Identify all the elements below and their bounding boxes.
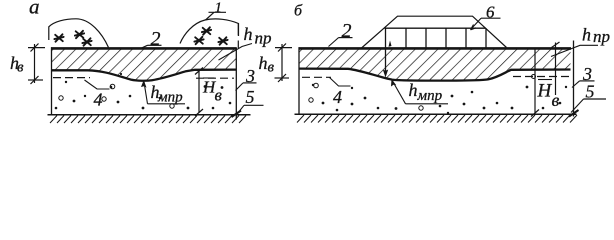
snowflake 4: [202, 27, 211, 34]
snow arc right (а): [180, 19, 239, 44]
svg-text:Н: Н: [537, 80, 553, 101]
bog surface dashes left (б): [302, 76, 331, 78]
dots in peat layer (а): [55, 73, 232, 110]
snowflake 6: [218, 37, 227, 44]
label 4 (б): [329, 77, 350, 106]
label 5 (б): [571, 82, 606, 113]
label h_мпр with leader (а): [141, 80, 185, 106]
embankment hatched band (б): [299, 49, 571, 81]
ground line (б): [295, 113, 577, 115]
label h_пр (б): [551, 24, 610, 56]
svg-text:2: 2: [151, 28, 161, 50]
svg-text:1: 1: [215, 0, 223, 16]
dimension tick at right edge bottom (б): [569, 110, 579, 117]
svg-text:h: h: [582, 24, 591, 44]
left edge (б): [298, 47, 300, 114]
dimension tick at right edge bottom (а): [232, 111, 242, 118]
svg-text:пр: пр: [255, 28, 272, 47]
svg-text:5: 5: [246, 87, 255, 107]
ground hatch ticks (а): [50, 116, 246, 124]
snowflake 1: [54, 34, 63, 41]
svg-text:а: а: [29, 0, 40, 19]
label 1 (а): [206, 0, 227, 20]
label 3 (а): [236, 66, 257, 91]
label 6 (б): [471, 3, 501, 30]
mat grid top edge (б): [385, 27, 487, 29]
dots in peat layer (б): [309, 75, 567, 115]
snow mat trapezoid outline (б): [362, 16, 507, 48]
label h_мпр with leader (б): [391, 79, 448, 104]
svg-text:h: h: [259, 53, 268, 73]
svg-text:h: h: [409, 80, 418, 100]
bog surface dashes right (б): [513, 76, 569, 78]
label Н_в (а): [202, 77, 223, 104]
snow arc left (а): [49, 19, 109, 48]
svg-text:б: б: [294, 3, 303, 20]
dimension Н_в verticals (б): [531, 42, 560, 117]
label 5 (а): [238, 87, 264, 113]
svg-text:4: 4: [333, 87, 342, 107]
snowflake 5: [194, 37, 203, 44]
svg-text:2: 2: [342, 20, 352, 42]
right edge (а): [235, 48, 237, 120]
dashed snow extension at right edge (а): [237, 24, 239, 49]
label Н_в (б): [537, 80, 560, 111]
dimension h_в (б): [275, 44, 293, 83]
snowflake 2: [75, 31, 84, 38]
dimension Н_в (а): [195, 68, 203, 117]
dimension h_в (а): [28, 44, 45, 85]
svg-text:в: в: [268, 60, 275, 76]
label h_пр (а): [219, 24, 272, 60]
label 3 (б): [572, 64, 595, 87]
svg-text:в: в: [552, 90, 560, 110]
band bottom curve (а): [52, 70, 237, 81]
svg-text:мпр: мпр: [417, 88, 443, 104]
label 4 (а): [85, 80, 110, 110]
label 2 (а): [142, 28, 162, 50]
svg-text:в: в: [17, 59, 24, 75]
band bottom curve (б): [299, 69, 571, 81]
svg-text:4: 4: [94, 90, 103, 110]
ground line (а): [48, 114, 251, 116]
snowflake 3: [82, 38, 91, 45]
bog surface dashes right (а): [196, 77, 234, 79]
mat grid verticals (б): [406, 28, 486, 47]
settlement axis with arrow (б): [383, 28, 388, 77]
svg-text:пр: пр: [593, 27, 610, 46]
ground hatch ticks (б): [297, 115, 577, 123]
small arrow at road line (б): [389, 41, 392, 47]
right edge (б): [573, 41, 575, 117]
bog surface dashes left (а): [53, 77, 90, 79]
road top surface (б): [299, 47, 572, 50]
embankment hatched band (а): [52, 49, 237, 81]
svg-text:h: h: [244, 24, 253, 44]
road top surface (а): [51, 47, 237, 50]
label 2 (б): [329, 20, 353, 47]
left edge (а): [51, 47, 53, 115]
